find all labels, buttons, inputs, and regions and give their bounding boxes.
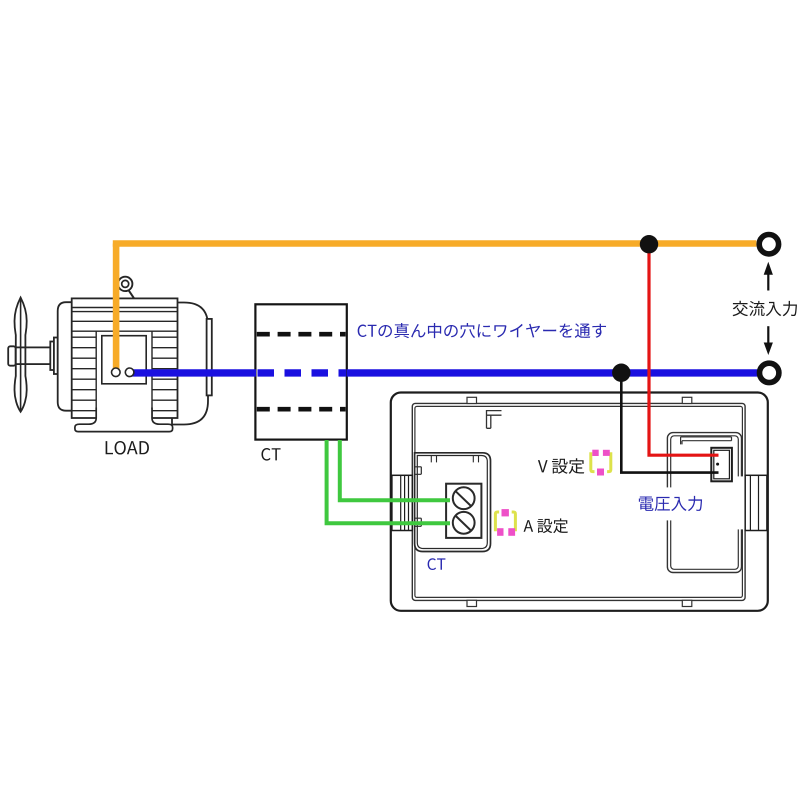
AC input terminal top bbox=[759, 235, 778, 254]
motor body top fins bbox=[72, 308, 178, 332]
motor body bbox=[72, 298, 178, 418]
annotation: pass wire through CT center hole bbox=[358, 323, 606, 338]
screw terminal 1 bbox=[453, 487, 475, 509]
wire: blue right segment to AC input bbox=[347, 369, 758, 376]
meter bottom clip right bbox=[682, 600, 692, 606]
screw terminal 2 bbox=[453, 512, 475, 534]
motor shaft step 2 bbox=[54, 338, 58, 375]
AC input terminal bottom bbox=[760, 363, 779, 382]
motor shaft bbox=[12, 347, 54, 364]
label CT (under CT box) bbox=[261, 448, 280, 461]
V setting button icon bbox=[591, 452, 611, 471]
meter top clip left bbox=[467, 397, 477, 403]
CT winding dashed line bottom bbox=[257, 407, 346, 412]
motor shaft step 1 bbox=[50, 342, 54, 371]
label 電圧入力 (voltage input) bbox=[640, 487, 706, 520]
motor eye hook bbox=[118, 277, 134, 299]
wire: green CT secondary 2 bbox=[340, 440, 450, 500]
wire: green CT secondary 1 bbox=[327, 440, 450, 523]
label 交流入力 (AC input) bbox=[733, 301, 797, 316]
meter corner bracket mark bbox=[487, 411, 502, 429]
label V setting bbox=[538, 458, 584, 474]
motor rear end-bell bbox=[172, 303, 208, 425]
motor terminal blue bbox=[125, 368, 134, 377]
terminal block top notches bbox=[431, 456, 478, 463]
compartment top plate bbox=[681, 437, 732, 445]
motor left fin stack bbox=[72, 331, 97, 418]
screw plate bbox=[446, 484, 481, 538]
motor right fin stack bbox=[152, 331, 178, 418]
voltage input connector bbox=[711, 448, 732, 482]
terminal block left latches bbox=[415, 467, 422, 527]
wire: orange top bus horizontal bbox=[113, 240, 757, 247]
motor M1 (LOAD) bbox=[8, 298, 212, 425]
motor fan center line bbox=[20, 299, 22, 412]
motor front end-bell bbox=[58, 302, 72, 411]
motor rear tab bbox=[207, 319, 212, 396]
label LOAD bbox=[106, 441, 149, 455]
wire: blue dashed inside CT bbox=[258, 369, 347, 376]
meter right mounting tab bbox=[736, 476, 746, 529]
motor terminal box bbox=[102, 336, 146, 384]
wire: red voltage tap bbox=[649, 244, 719, 455]
meter bottom clip left bbox=[467, 600, 477, 606]
meter voltage compartment inner bbox=[671, 436, 739, 570]
arrow up to AC terminal bbox=[764, 262, 773, 291]
motor terminal orange bbox=[112, 368, 121, 377]
current transformer CT box bbox=[255, 304, 346, 439]
meter voltage compartment outer bbox=[667, 433, 741, 573]
motor fan blades bbox=[15, 298, 27, 412]
meter outer case bbox=[391, 393, 768, 611]
label CT (terminal block) bbox=[428, 558, 446, 570]
wire: orange line vertical (motor to top bus) bbox=[113, 244, 120, 370]
A setting button icon bbox=[495, 512, 515, 531]
motor pedestal and base bbox=[75, 409, 173, 432]
CT winding dashed line top bbox=[257, 332, 346, 337]
arrow down to AC terminal bbox=[764, 326, 773, 355]
motor shaft end cap bbox=[8, 346, 15, 365]
meter top clip right bbox=[682, 397, 692, 403]
junction dot on blue bus bbox=[612, 364, 630, 382]
CT terminal block housing bbox=[415, 453, 491, 552]
wire: blue line left segment bbox=[130, 369, 256, 376]
meter left mounting tab bbox=[392, 475, 412, 530]
label A setting bbox=[524, 518, 568, 533]
meter inner frame inner line bbox=[415, 406, 743, 597]
meter inner frame outer line bbox=[412, 403, 745, 600]
junction dot on orange bus bbox=[640, 235, 658, 253]
wire: black voltage tap bbox=[621, 373, 718, 473]
